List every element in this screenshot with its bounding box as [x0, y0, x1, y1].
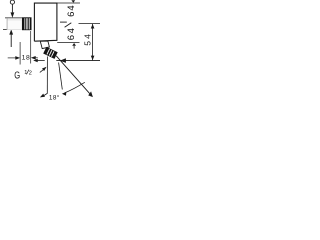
pipe: light threaded shank	[7, 20, 22, 30]
arrow: small axis arrow pointing right	[42, 67, 47, 71]
wire: tail below bottom arrow	[73, 46, 75, 49]
wire: horizontal reference line	[56, 60, 100, 62]
wire: short leader to connector tip	[37, 60, 45, 62]
wire: leader to 18deg	[59, 63, 63, 90]
arrow: 18 dim pointing left	[31, 56, 36, 60]
tick: dim break dash	[60, 21, 67, 23]
svg-text:64: 64	[66, 4, 77, 17]
wire: 54 top ext line	[79, 23, 101, 25]
arrow: left end of short leader	[33, 59, 38, 63]
wire: 18 dim right shaft	[34, 57, 38, 59]
wire: small leader to axis arrow	[40, 69, 44, 72]
plate: escutcheon rectangle	[34, 3, 100, 96]
wire: 54 dim line	[92, 24, 94, 60]
nut: hatched hex nut block	[22, 17, 32, 30]
wire: top extension to right	[57, 2, 80, 4]
wire: vertical axis below outlet	[46, 57, 48, 94]
wire: lower dim shaft	[10, 35, 12, 48]
arrow: upper dim pointing down	[11, 12, 15, 17]
wire: axis 45deg line R2	[56, 56, 91, 95]
circle (diameter symbol) top-left	[10, 0, 14, 4]
arrow: 18 dim pointing right	[15, 56, 20, 60]
wire: 18 right extension line	[30, 31, 32, 64]
wire: arc leader	[65, 82, 85, 93]
svg-text:18: 18	[22, 54, 31, 61]
svg-text:64: 64	[66, 26, 77, 40]
wire: upper ext line	[5, 17, 23, 19]
arrow: 64 dim bottom pointing up	[72, 43, 76, 46]
arrow: arc end pointing down-left	[62, 92, 66, 96]
svg-text:54: 54	[83, 32, 93, 46]
arrow: bottom angled arrow pointing down-left	[40, 94, 45, 98]
wire: upper dim shaft	[11, 4, 13, 12]
arrow: end of R2 pointing down-right	[88, 91, 93, 97]
connector: dark striped hose connector	[43, 47, 58, 59]
svg-text:G: G	[14, 69, 20, 81]
neck: outlet neck quad	[40, 41, 49, 49]
wire: bottom ext line 64 dim	[57, 42, 79, 44]
svg-text:18°: 18°	[49, 93, 60, 100]
arrow: 54 dim bottom pointing down	[91, 56, 95, 61]
arrow: lower dim pointing up	[9, 29, 13, 34]
svg-text:2: 2	[29, 71, 32, 77]
arrow: 64 dim top pointing down	[71, 0, 75, 3]
arrow: fat left arrow at vertex	[60, 58, 66, 63]
wire: 18 dim left shaft	[8, 57, 17, 59]
arrow: 54 dim top pointing up	[91, 24, 95, 29]
wire: lower ext line	[3, 29, 20, 31]
tick: oblique slash	[65, 23, 72, 28]
wire: 18 left extension line	[19, 42, 21, 65]
